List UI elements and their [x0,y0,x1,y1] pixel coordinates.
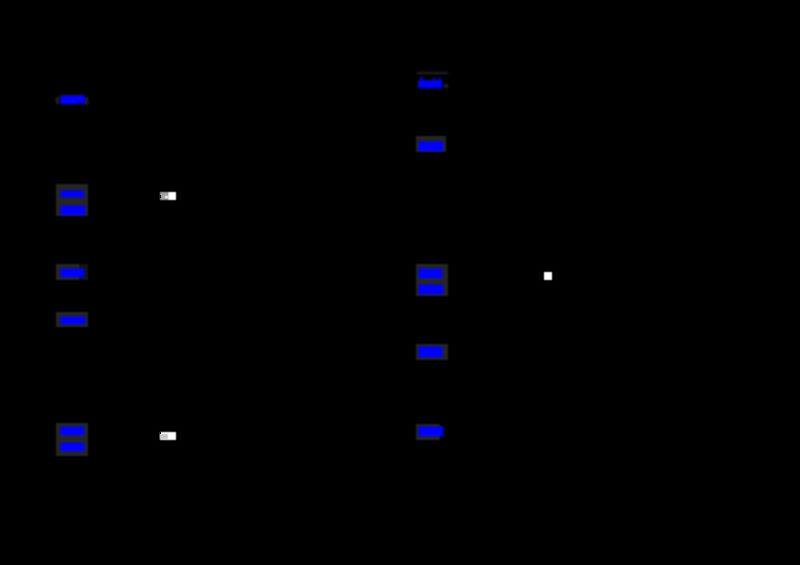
icon I2 gray sub-block [160,434,168,440]
card L4 blue line [60,316,86,325]
card L5 box [56,423,89,456]
card R5 box [416,424,440,440]
link L1 right glyph [85,97,88,105]
link L1 left bracket [56,97,59,105]
card R3 blue line 2 [418,284,443,294]
card R2 box [416,136,446,152]
white square W1 [544,272,552,280]
card L3 box dark part [80,264,88,280]
card L4 box [56,312,88,328]
icon I1 white slot [165,196,168,198]
card L3 box light part [56,264,80,280]
card R2 blue line [418,141,442,151]
card L5 blue line 1 [60,426,84,435]
card R3 box [416,264,448,297]
link L1 blue text [60,95,85,104]
icon I1 gray half [160,192,168,200]
icon I1 white half [168,192,176,200]
card L3 blue line [60,268,85,278]
link L1 bottom notch [78,102,81,105]
icon I2 white body [160,432,176,440]
card L2 blue line 1 [60,190,84,198]
card L5 blue line 2 [60,442,84,452]
card R4 blue line [418,346,442,356]
card R1 blue line [418,80,443,89]
card L2 blue line 2 [60,205,84,215]
card R1 dim right block [444,84,449,88]
card R5 blue line [418,426,442,436]
card L2 box [56,184,88,217]
card R1 ascender bumps [420,77,423,81]
card R4 box [416,344,448,360]
card R3 blue line 1 [418,268,442,278]
card R1 dim text above [417,72,448,74]
icon I2 top-left cut [160,432,161,434]
icon I1 left notch [160,195,162,198]
